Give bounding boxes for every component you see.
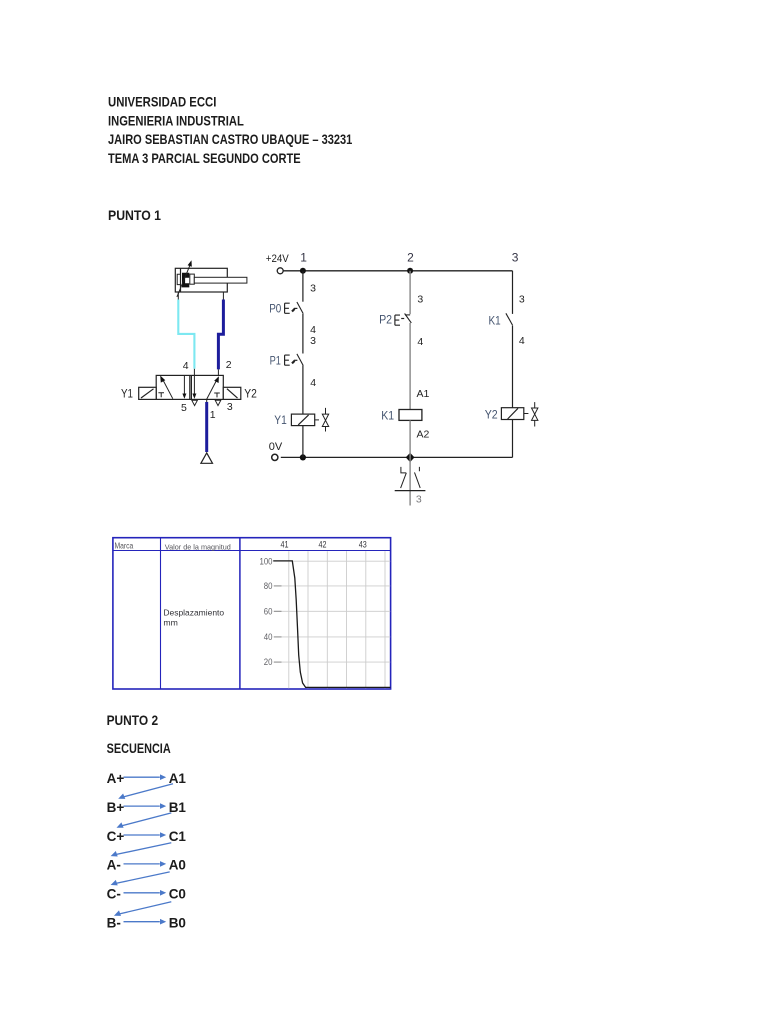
return arrow B1 to C+ bbox=[117, 813, 172, 828]
svg-text:43: 43 bbox=[359, 539, 367, 550]
wire cyan black tail bbox=[193, 369, 195, 376]
0V rail bbox=[281, 456, 513, 458]
rung 1 wire mid bbox=[302, 314, 304, 354]
svg-text:1: 1 bbox=[300, 251, 307, 265]
arrow C- to C0 bbox=[124, 890, 167, 896]
svg-text:Y2: Y2 bbox=[244, 386, 257, 400]
label E of P2 bbox=[395, 315, 400, 325]
svg-text:B+: B+ bbox=[107, 800, 125, 815]
K1 contact mirror NC bbox=[401, 467, 407, 488]
svg-text:A+: A+ bbox=[107, 771, 125, 786]
return arrow C1 to A- bbox=[111, 843, 172, 857]
0V terminal bbox=[272, 454, 278, 460]
valve right position passage 1-2 bbox=[207, 376, 219, 399]
exhaust port 3 triangle bbox=[215, 400, 221, 405]
cylinder cushion bracket left bbox=[177, 274, 180, 284]
coil Y2 bbox=[501, 408, 523, 420]
svg-text:C-: C- bbox=[107, 887, 121, 902]
exhaust port 5 triangle bbox=[192, 400, 198, 405]
svg-text:A2: A2 bbox=[417, 428, 430, 440]
valve left position passage 1-4 bbox=[160, 376, 173, 399]
rung 2 wire mid bbox=[409, 323, 411, 410]
contact P2 blade bbox=[405, 314, 412, 323]
svg-text:Marca: Marca bbox=[115, 541, 134, 550]
svg-text:mm: mm bbox=[163, 617, 177, 627]
svg-text:B-: B- bbox=[107, 916, 121, 931]
svg-text:+24V: +24V bbox=[266, 253, 290, 265]
+24V rail bbox=[283, 270, 512, 272]
svg-text:41: 41 bbox=[281, 539, 289, 550]
rung 3 wire bottom bbox=[512, 420, 514, 458]
arrow C+ to C1 bbox=[124, 832, 167, 838]
valve V1 body bbox=[156, 375, 223, 399]
svg-text:B0: B0 bbox=[169, 916, 186, 931]
table outer border bbox=[113, 538, 391, 689]
coil Y1 stub bbox=[315, 419, 319, 421]
svg-text:A0: A0 bbox=[169, 858, 186, 873]
svg-text:3: 3 bbox=[227, 401, 233, 413]
svg-text:K1: K1 bbox=[489, 314, 501, 328]
svg-text:42: 42 bbox=[319, 539, 327, 550]
rung 3 wire mid bbox=[512, 325, 514, 407]
svg-text:JAIRO SEBASTIAN CASTRO UBAQUE: JAIRO SEBASTIAN CASTRO UBAQUE – 33231 bbox=[108, 131, 352, 147]
arrow B+ to B1 bbox=[124, 803, 167, 809]
coil Y2 stub bbox=[524, 413, 529, 415]
label E of P0 bbox=[285, 303, 290, 313]
svg-text:100: 100 bbox=[260, 556, 273, 566]
rung 2 wire below rail bbox=[409, 457, 411, 505]
node diamond rail2 bottom bbox=[406, 453, 415, 462]
rung 1 wire top bbox=[302, 271, 304, 302]
contact P1 manual actuator bbox=[292, 360, 297, 363]
rung 1 wire bottom bbox=[302, 426, 304, 458]
cylinder A body bbox=[175, 268, 227, 292]
wire port 1 supply bbox=[206, 399, 208, 452]
svg-text:PUNTO 1: PUNTO 1 bbox=[108, 207, 161, 223]
K1 contact mirror bar bbox=[395, 490, 426, 492]
solenoid Y2 box bbox=[223, 387, 241, 399]
rung 2 wire bottom bbox=[409, 420, 411, 457]
contact P0 manual actuator bbox=[292, 308, 297, 311]
return arrow A0 to C- bbox=[111, 872, 170, 886]
svg-text:K1: K1 bbox=[381, 409, 394, 423]
rung 3 wire top bbox=[512, 271, 514, 314]
svg-text:A-: A- bbox=[107, 858, 121, 873]
rung numbers bbox=[300, 251, 519, 265]
arrow A+ to A1 bbox=[124, 774, 167, 780]
svg-text:Desplazamiento: Desplazamiento bbox=[163, 607, 224, 617]
table divider 2 chart border bbox=[239, 538, 241, 689]
coil Y1 valve indicator bbox=[322, 408, 328, 432]
svg-text:3: 3 bbox=[512, 251, 519, 265]
svg-text:C0: C0 bbox=[169, 887, 186, 902]
P2 actuator dash bbox=[401, 318, 404, 320]
valve right position passage 4-5 bbox=[192, 375, 196, 398]
arrow A- to A0 bbox=[124, 861, 167, 867]
label E of P1 bbox=[285, 355, 290, 365]
K1 contact mirror NO bbox=[415, 467, 421, 488]
contact K1 blade bbox=[506, 313, 513, 325]
svg-text:5: 5 bbox=[181, 402, 187, 414]
return arrow C0 to B- bbox=[114, 902, 171, 916]
svg-text:A1: A1 bbox=[417, 388, 430, 400]
svg-text:3: 3 bbox=[416, 493, 422, 505]
chart axis ticks bbox=[274, 586, 282, 662]
valve left position blocked port 5 bbox=[158, 393, 164, 398]
valve labels bbox=[121, 386, 257, 400]
table header separator bbox=[113, 550, 391, 552]
contact P1 blade bbox=[297, 354, 303, 366]
svg-text:C+: C+ bbox=[107, 829, 125, 844]
svg-text:1: 1 bbox=[210, 409, 216, 421]
svg-text:4: 4 bbox=[519, 335, 525, 347]
svg-text:2: 2 bbox=[407, 251, 414, 265]
chart vertical gridlines bbox=[289, 551, 385, 688]
svg-text:P2: P2 bbox=[379, 312, 392, 326]
wire blue cylinder to valve port 2 bbox=[218, 300, 223, 370]
contact P0 blade bbox=[297, 302, 303, 314]
svg-text:4: 4 bbox=[310, 377, 316, 389]
svg-text:UNIVERSIDAD ECCI: UNIVERSIDAD ECCI bbox=[108, 94, 216, 110]
valve port numbers bbox=[181, 359, 233, 421]
svg-text:Y1: Y1 bbox=[121, 386, 133, 400]
svg-text:Y1: Y1 bbox=[274, 413, 287, 427]
svg-text:4: 4 bbox=[183, 360, 189, 372]
svg-text:TEMA 3 PARCIAL SEGUNDO CORTE: TEMA 3 PARCIAL SEGUNDO CORTE bbox=[108, 150, 301, 166]
displacement curve bbox=[273, 561, 390, 688]
coil Y2 valve indicator bbox=[532, 402, 538, 426]
cylinder piston rod bbox=[194, 277, 247, 283]
chart horizontal gridlines bbox=[274, 561, 390, 662]
svg-text:Y2: Y2 bbox=[485, 408, 498, 422]
svg-text:PUNTO 2: PUNTO 2 bbox=[107, 712, 159, 728]
return arrow A1 to B+ bbox=[118, 784, 173, 799]
title text block bbox=[108, 94, 352, 167]
svg-text:P1: P1 bbox=[270, 353, 282, 367]
svg-text:Valor de la magnitud: Valor de la magnitud bbox=[165, 542, 231, 551]
svg-text:4: 4 bbox=[417, 336, 423, 348]
node dot rail2 top bbox=[407, 268, 413, 274]
cylinder cushion bracket right bbox=[190, 274, 195, 284]
svg-text:40: 40 bbox=[264, 632, 273, 642]
svg-text:P0: P0 bbox=[269, 301, 281, 315]
sequence labels column right bbox=[169, 771, 187, 931]
rung 2 wire top bbox=[409, 271, 411, 314]
coil K1 bbox=[399, 410, 422, 421]
svg-text:3: 3 bbox=[417, 293, 423, 305]
svg-text:INGENIERIA INDUSTRIAL: INGENIERIA INDUSTRIAL bbox=[108, 112, 244, 128]
svg-text:3: 3 bbox=[519, 294, 525, 306]
svg-text:20: 20 bbox=[264, 657, 273, 667]
svg-text:2: 2 bbox=[226, 359, 232, 371]
cylinder stroke arrow bbox=[177, 260, 192, 297]
node dot rail1 bottom bbox=[300, 454, 306, 460]
svg-text:SECUENCIA: SECUENCIA bbox=[107, 740, 171, 756]
solenoid Y1 box bbox=[139, 387, 157, 399]
valve left position passage 2-3 bbox=[182, 375, 186, 398]
cylinder port stubs bbox=[178, 292, 223, 300]
svg-text:60: 60 bbox=[264, 607, 273, 617]
arrow B- to B0 bbox=[124, 919, 167, 925]
sequence labels column left bbox=[107, 771, 125, 931]
cylinder piston (black seal) bbox=[182, 273, 189, 288]
contact P2 seat bbox=[405, 314, 410, 316]
node dot rail1 top bbox=[300, 268, 306, 274]
wire blue black tail bbox=[217, 369, 219, 375]
svg-text:3: 3 bbox=[310, 335, 316, 347]
svg-text:B1: B1 bbox=[169, 800, 187, 815]
table divider 1 bbox=[160, 538, 162, 689]
svg-text:3: 3 bbox=[310, 283, 316, 295]
rung 1 wire low bbox=[302, 366, 304, 415]
coil Y1 bbox=[291, 414, 314, 426]
svg-text:0V: 0V bbox=[269, 441, 283, 453]
+24V terminal bbox=[277, 268, 283, 274]
wire cyan cylinder to valve port 4 bbox=[178, 300, 194, 369]
valve right position blocked port 3 bbox=[214, 393, 220, 397]
air supply triangle bbox=[201, 453, 213, 463]
svg-text:C1: C1 bbox=[169, 829, 187, 844]
svg-text:80: 80 bbox=[264, 581, 273, 591]
